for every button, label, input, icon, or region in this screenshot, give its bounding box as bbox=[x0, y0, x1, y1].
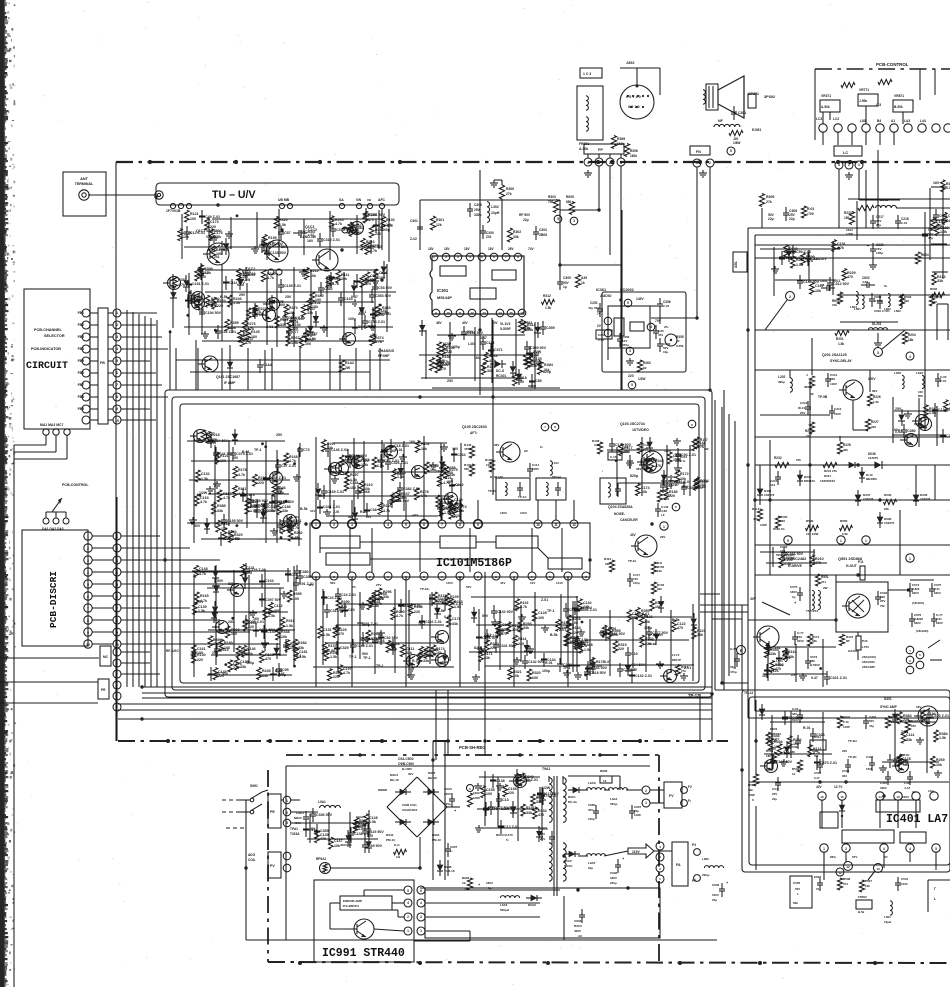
svg-text:C•73: C•73 bbox=[730, 647, 737, 651]
svg-text:15: 15 bbox=[509, 311, 513, 315]
svg-text:P.S-WIDTH: P.S-WIDTH bbox=[343, 904, 360, 908]
coil DL201 bbox=[868, 322, 887, 347]
svg-text:C345 Z-01: C345 Z-01 bbox=[356, 644, 373, 648]
svg-text:64μ: 64μ bbox=[588, 866, 593, 870]
svg-text:C13: C13 bbox=[502, 798, 509, 802]
resistor R504 39k 1/2W S bbox=[748, 774, 759, 802]
svg-text:12k: 12k bbox=[865, 884, 870, 888]
svg-text:L: L bbox=[934, 897, 936, 901]
svg-text:5: 5 bbox=[557, 217, 559, 221]
svg-text:C572: C572 bbox=[790, 585, 798, 589]
label 33V arrow bbox=[750, 597, 790, 615]
audio section outline bbox=[602, 292, 686, 372]
svg-text:1.5k: 1.5k bbox=[268, 509, 275, 513]
wire power-supply dash outline right bbox=[658, 755, 660, 962]
svg-text:R173: R173 bbox=[242, 270, 251, 274]
svg-text:C163: C163 bbox=[265, 579, 274, 583]
svg-text:FA: FA bbox=[676, 863, 681, 867]
svg-text:100: 100 bbox=[538, 616, 544, 620]
capacitor C373 35u 470L bbox=[730, 647, 740, 674]
svg-text:L602: L602 bbox=[894, 309, 901, 313]
label Q591 2SD868 bbox=[838, 554, 914, 568]
svg-text:PM-1C: PM-1C bbox=[432, 838, 442, 842]
svg-text:R320: R320 bbox=[279, 218, 288, 222]
svg-text:2: 2 bbox=[407, 915, 409, 919]
capacitor C360 50V 10u bbox=[657, 338, 671, 354]
svg-text:Z-01: Z-01 bbox=[359, 310, 366, 314]
svg-text:220μ: 220μ bbox=[610, 881, 617, 885]
svg-text:L623: L623 bbox=[916, 371, 923, 375]
svg-text:630V: 630V bbox=[934, 591, 941, 595]
svg-text:100: 100 bbox=[395, 499, 401, 503]
svg-text:C23 Z-01: C23 Z-01 bbox=[327, 596, 342, 600]
IC991 pins right bbox=[417, 886, 425, 935]
svg-text:1•: 1• bbox=[450, 849, 453, 853]
svg-text:ANT: ANT bbox=[80, 177, 88, 181]
svg-text:10k: 10k bbox=[421, 447, 427, 451]
svg-text:C53 50V: C53 50V bbox=[378, 286, 393, 290]
svg-text:47k: 47k bbox=[753, 517, 758, 521]
svg-text:220: 220 bbox=[669, 494, 675, 498]
svg-text:C326 Z-01: C326 Z-01 bbox=[391, 461, 408, 465]
svg-text:12: 12 bbox=[676, 339, 680, 343]
svg-text:10k: 10k bbox=[247, 652, 253, 656]
label TP-16 TP-1F bbox=[436, 469, 528, 499]
svg-text:L83: L83 bbox=[860, 119, 866, 123]
svg-text:10μ: 10μ bbox=[663, 350, 668, 354]
label 220b bbox=[842, 749, 847, 753]
svg-text:C77: C77 bbox=[292, 330, 299, 334]
svg-text:ERROR-AMP: ERROR-AMP bbox=[343, 899, 362, 903]
diode D105 bbox=[661, 470, 680, 487]
labels IC401 volts bbox=[830, 855, 888, 859]
svg-text:35μ: 35μ bbox=[730, 665, 735, 669]
svg-text:C24 Z-01: C24 Z-01 bbox=[341, 593, 356, 597]
label HF TP-9B bbox=[810, 392, 828, 399]
svg-text:R4LF: R4LF bbox=[752, 507, 760, 511]
PV pins bbox=[283, 852, 291, 872]
svg-text:R232: R232 bbox=[294, 531, 303, 535]
diode D? arrow bbox=[844, 462, 860, 469]
capacitor C577 150 bbox=[792, 631, 804, 645]
label TPA1 T315A bbox=[290, 827, 300, 836]
wire power-supply dash outline top bbox=[286, 754, 660, 756]
wire ladder horizontals bbox=[121, 313, 165, 608]
error amp box bbox=[340, 896, 392, 910]
svg-text:53V: 53V bbox=[452, 515, 457, 519]
svg-text:FB8: FB8 bbox=[78, 395, 85, 399]
svg-text:COIL: COIL bbox=[248, 858, 256, 862]
right column tall rect bbox=[937, 304, 948, 340]
svg-text:9: 9 bbox=[116, 407, 118, 411]
capacitor C603 J-7 bbox=[869, 293, 883, 307]
svg-text:18V: 18V bbox=[916, 705, 921, 709]
svg-text:R121: R121 bbox=[190, 212, 199, 216]
svg-text:220: 220 bbox=[911, 724, 916, 728]
svg-text:C353 50V: C353 50V bbox=[375, 294, 392, 298]
svg-text:PR: PR bbox=[101, 688, 106, 692]
svg-text:Q103 2SC2734: Q103 2SC2734 bbox=[620, 422, 645, 426]
svg-text:12k: 12k bbox=[436, 223, 442, 227]
svg-text:PCB-INDICATOR: PCB-INDICATOR bbox=[31, 347, 61, 351]
svg-text:0.47: 0.47 bbox=[811, 676, 818, 680]
coil L602b bbox=[894, 295, 902, 313]
svg-text:TP-1F: TP-1F bbox=[488, 489, 497, 493]
svg-text:33k: 33k bbox=[383, 595, 389, 599]
svg-text:220: 220 bbox=[258, 481, 264, 485]
svg-text:RU-3a: RU-3a bbox=[568, 800, 577, 804]
svg-text:C314 50V: C314 50V bbox=[330, 609, 347, 613]
label ADG COIL bbox=[248, 853, 256, 862]
svg-text:•41V: •41V bbox=[412, 513, 418, 517]
svg-text:C402: C402 bbox=[866, 755, 874, 759]
svg-text:4: 4 bbox=[650, 325, 652, 329]
IC101 bottom pins bbox=[312, 572, 590, 580]
resistor R1M4 31k bbox=[537, 362, 553, 375]
svg-text:B-5k: B-5k bbox=[858, 910, 865, 914]
svg-text:R267: R267 bbox=[291, 336, 300, 340]
FP connector box bbox=[584, 144, 624, 154]
svg-text:100: 100 bbox=[231, 632, 237, 636]
svg-text:0.7k: 0.7k bbox=[843, 720, 849, 724]
wire IC401 block inner outline bbox=[749, 697, 950, 865]
wires ic401 buses bbox=[742, 782, 949, 880]
svg-text:R388: R388 bbox=[447, 466, 456, 470]
svg-text:12: 12 bbox=[572, 523, 576, 527]
svg-text:1.5k: 1.5k bbox=[939, 736, 946, 740]
svg-text:R346: R346 bbox=[771, 734, 780, 738]
svg-text:33k: 33k bbox=[513, 235, 519, 239]
svg-text:10k: 10k bbox=[442, 348, 448, 352]
svg-text:TU – U/V: TU – U/V bbox=[212, 189, 256, 201]
svg-text:C38: C38 bbox=[370, 508, 377, 512]
capacitor C363 bbox=[617, 333, 630, 347]
svg-text:220: 220 bbox=[842, 749, 847, 753]
svg-text:E507: E507 bbox=[814, 875, 821, 879]
coil L002 bbox=[848, 198, 950, 240]
svg-text:+: + bbox=[726, 881, 728, 885]
svg-text:FB1: FB1 bbox=[78, 311, 85, 315]
svg-text:R303: R303 bbox=[548, 195, 556, 199]
svg-text:33k: 33k bbox=[523, 626, 529, 630]
svg-text:100: 100 bbox=[224, 646, 230, 650]
wires lower right block bbox=[748, 620, 836, 680]
resistor R363 82 bbox=[637, 360, 650, 372]
svg-text:4.7k: 4.7k bbox=[200, 500, 207, 504]
capacitor C303 bbox=[533, 226, 547, 240]
svg-text:27V: 27V bbox=[376, 583, 381, 587]
wires IC301 area bbox=[420, 200, 560, 388]
svg-text:C92 Z-01: C92 Z-01 bbox=[788, 716, 803, 720]
diode D096 1S2075 bbox=[877, 512, 895, 528]
svg-text:220: 220 bbox=[771, 739, 777, 743]
svg-text:1.5k: 1.5k bbox=[377, 464, 384, 468]
resistor R403 220 bbox=[905, 719, 918, 732]
svg-text:1500: 1500 bbox=[834, 412, 841, 416]
svg-text:470: 470 bbox=[368, 218, 374, 222]
svg-text:R233: R233 bbox=[844, 211, 852, 215]
svg-text:4: 4 bbox=[909, 847, 911, 851]
svg-text:10k: 10k bbox=[281, 635, 287, 639]
wire IF block outline mid bbox=[172, 397, 705, 690]
svg-text:R509 10•: R509 10• bbox=[773, 527, 785, 531]
svg-text:1.5k: 1.5k bbox=[330, 655, 337, 659]
svg-text:220: 220 bbox=[518, 642, 524, 646]
tuner lower parts bbox=[198, 356, 354, 385]
wires sync area bbox=[760, 330, 950, 441]
resistor NF network bbox=[714, 119, 761, 155]
svg-text:400V: 400V bbox=[356, 825, 363, 829]
svg-text:33k: 33k bbox=[262, 674, 268, 678]
svg-text:FB2: FB2 bbox=[78, 323, 85, 327]
wires DISCRI pins to board bbox=[92, 536, 280, 644]
svg-text:C321 Z-01: C321 Z-01 bbox=[830, 676, 847, 680]
wire c602 row bbox=[840, 294, 950, 296]
capacitor C-15 16V bbox=[608, 452, 622, 460]
svg-text:118V: 118V bbox=[830, 382, 837, 386]
svg-text:C360 Z-01: C360 Z-01 bbox=[404, 604, 421, 608]
svg-text:C32 Z-01: C32 Z-01 bbox=[221, 330, 236, 334]
svg-text:12: 12 bbox=[470, 311, 474, 315]
box 1C3 header bbox=[580, 68, 602, 78]
svg-text:L1Y4: L1Y4 bbox=[672, 653, 680, 657]
svg-text:82: 82 bbox=[643, 366, 647, 370]
svg-text:C146 Z-01: C146 Z-01 bbox=[331, 448, 348, 452]
svg-text:50V: 50V bbox=[466, 585, 471, 589]
resistor R157 120 2W bbox=[694, 437, 708, 451]
fuse P11 bbox=[858, 560, 865, 580]
diode D9A8 bbox=[526, 895, 542, 907]
resistor R604 bbox=[915, 252, 928, 264]
resistor R312 bbox=[542, 294, 555, 310]
svg-text:D0C2: D0C2 bbox=[564, 859, 572, 863]
wire top right corner drop bbox=[920, 69, 935, 100]
svg-text:5: 5 bbox=[787, 539, 789, 543]
svg-text:C902: C902 bbox=[610, 871, 618, 875]
node tuner RF input bbox=[155, 191, 163, 199]
svg-text:C12 Z-01: C12 Z-01 bbox=[504, 825, 519, 829]
svg-text:F2: F2 bbox=[688, 785, 692, 789]
svg-text:L9A5: L9A5 bbox=[588, 861, 596, 865]
svg-text:6: 6 bbox=[554, 425, 556, 429]
svg-text:4.7k: 4.7k bbox=[345, 461, 352, 465]
svg-text:820p: 820p bbox=[474, 646, 482, 650]
resistor R301b bbox=[801, 206, 814, 218]
svg-text:1.5k: 1.5k bbox=[268, 614, 275, 618]
svg-text:C380: C380 bbox=[907, 429, 916, 433]
label IC401 LA7 bbox=[886, 813, 948, 826]
svg-text:C155: C155 bbox=[267, 630, 276, 634]
svg-text:R351: R351 bbox=[608, 627, 617, 631]
cluster right block top band bbox=[0, 0, 1, 1]
svg-text:630V: 630V bbox=[912, 591, 919, 595]
svg-text:R212: R212 bbox=[310, 269, 319, 273]
svg-text:C251: C251 bbox=[590, 301, 598, 305]
fusible R906 12 bbox=[600, 769, 612, 783]
svg-text:TP-1k: TP-1k bbox=[628, 559, 637, 563]
LC pins 321 bbox=[835, 161, 863, 169]
resistor control R bbox=[841, 79, 892, 87]
svg-text:220: 220 bbox=[628, 374, 634, 378]
svg-text:W-01: W-01 bbox=[798, 406, 805, 410]
svg-text:27•: 27• bbox=[352, 585, 356, 589]
svg-text:33k: 33k bbox=[282, 509, 288, 513]
resistor R401 150k bbox=[885, 715, 898, 728]
svg-text:100μ: 100μ bbox=[452, 345, 460, 349]
svg-text:190k: 190k bbox=[473, 791, 480, 795]
svg-text:16V: 16V bbox=[933, 181, 940, 185]
svg-text:100: 100 bbox=[206, 436, 212, 440]
svg-text:IC301: IC301 bbox=[437, 288, 449, 293]
svg-text:330: 330 bbox=[830, 377, 835, 381]
svg-text:1: 1 bbox=[407, 929, 409, 933]
svg-text:C73: C73 bbox=[303, 448, 310, 452]
svg-text:5L: 5L bbox=[884, 284, 888, 288]
svg-text:100μ: 100μ bbox=[786, 556, 794, 560]
svg-text:CF131: CF131 bbox=[648, 633, 658, 637]
svg-text:C-5: C-5 bbox=[876, 103, 881, 107]
transistor IC991 internal bbox=[350, 919, 374, 939]
wires MC PR bbox=[117, 652, 160, 741]
label Q103 2SC2734 video bbox=[620, 420, 696, 432]
svg-text:1S2075: 1S2075 bbox=[884, 521, 895, 525]
resistor R300 27k bbox=[490, 180, 514, 199]
svg-text:FB9: FB9 bbox=[78, 407, 85, 411]
svg-text:C127: C127 bbox=[276, 672, 285, 676]
label 50V 22u pair bbox=[768, 213, 775, 221]
svg-text:1F7V01B: 1F7V01B bbox=[166, 209, 181, 213]
svg-text:1: 1 bbox=[420, 929, 422, 933]
svg-text:390: 390 bbox=[904, 299, 909, 303]
svg-text:DL201: DL201 bbox=[872, 322, 882, 326]
svg-text:25V: 25V bbox=[770, 747, 777, 751]
capacitor C251 47u 50V bbox=[588, 301, 603, 317]
svg-text:100: 100 bbox=[242, 275, 248, 279]
capacitor C501 1000 bbox=[895, 877, 909, 891]
svg-text:R906: R906 bbox=[600, 769, 608, 773]
wire horizontal bus 4 bbox=[118, 703, 712, 705]
svg-text:C181: C181 bbox=[299, 650, 308, 654]
svg-text:2SC1685: 2SC1685 bbox=[862, 665, 875, 669]
coil L101 820uH bbox=[550, 461, 561, 479]
more bus dots bbox=[148, 160, 877, 965]
node circled 1a bbox=[837, 536, 845, 544]
svg-text:27k: 27k bbox=[681, 669, 686, 673]
svg-text:180V: 180V bbox=[610, 876, 617, 880]
label TU - U/V bbox=[212, 189, 256, 201]
resistor R309 27k right bbox=[759, 194, 774, 229]
svg-text:C165: C165 bbox=[194, 295, 203, 299]
svg-text:1600: 1600 bbox=[866, 767, 873, 771]
svg-text:25V: 25V bbox=[285, 295, 292, 299]
label IC101M5186P bbox=[436, 557, 512, 570]
IC361 pin 5 bbox=[624, 299, 632, 307]
coil L9A5 64u bbox=[586, 854, 605, 870]
svg-text:220: 220 bbox=[248, 625, 254, 629]
svg-text:R284: R284 bbox=[298, 641, 307, 645]
svg-text:PE: PE bbox=[270, 810, 275, 814]
label L1Y4 820YP bbox=[672, 653, 681, 662]
svg-text:R227: R227 bbox=[871, 420, 879, 424]
label D401 SYNC AMP bbox=[880, 697, 921, 709]
svg-text:C91 Z-01: C91 Z-01 bbox=[299, 582, 314, 586]
svg-text:160k: 160k bbox=[630, 154, 637, 158]
svg-text:033: 033 bbox=[842, 774, 847, 778]
svg-text:1/2W: 1/2W bbox=[638, 377, 645, 381]
svg-text:SYNC AMP: SYNC AMP bbox=[880, 705, 898, 709]
svg-text:42V: 42V bbox=[816, 785, 823, 789]
label 160V 1u bbox=[478, 881, 493, 890]
wire IF block outline inner bbox=[180, 404, 699, 683]
svg-text:GF: GF bbox=[524, 449, 528, 453]
svg-text:43V: 43V bbox=[630, 533, 637, 537]
svg-text:R-01: R-01 bbox=[395, 448, 403, 452]
svg-text:114V: 114V bbox=[556, 581, 563, 585]
svg-text:25V: 25V bbox=[657, 633, 664, 637]
ground audio bbox=[626, 358, 634, 365]
svg-text:R502: R502 bbox=[792, 767, 800, 771]
diode D401 1S2076 bbox=[757, 484, 775, 500]
svg-text:C382 Z-01: C382 Z-01 bbox=[403, 487, 420, 491]
resistor R232 27k bbox=[774, 456, 801, 468]
svg-text:D9C3: D9C3 bbox=[390, 773, 398, 777]
svg-text:50V: 50V bbox=[682, 485, 689, 489]
svg-text:7V: 7V bbox=[597, 312, 602, 316]
svg-text:25V: 25V bbox=[228, 620, 235, 624]
label 1811H0 bbox=[912, 601, 924, 605]
svg-text:C323: C323 bbox=[816, 733, 825, 737]
svg-text:K-2•: K-2• bbox=[394, 843, 400, 847]
svg-text:10k: 10k bbox=[793, 742, 799, 746]
svg-text:400V AC: 400V AC bbox=[340, 843, 353, 847]
video out right bbox=[607, 437, 709, 500]
potentiometer VR871 bbox=[893, 94, 913, 112]
svg-text:25V: 25V bbox=[772, 792, 777, 796]
svg-text:Z-01: Z-01 bbox=[833, 279, 840, 283]
svg-text:470: 470 bbox=[789, 251, 795, 255]
svg-text:D211: D211 bbox=[824, 474, 831, 478]
svg-text:R350: R350 bbox=[641, 609, 650, 613]
svg-text:14: 14 bbox=[498, 311, 502, 315]
wire pcb-control left border bbox=[814, 69, 816, 140]
resistor R4LF 47k bbox=[752, 507, 767, 527]
svg-text:C329: C329 bbox=[340, 646, 349, 650]
svg-text:R343: R343 bbox=[382, 306, 391, 310]
svg-text:1.5k: 1.5k bbox=[372, 604, 379, 608]
svg-text:R398: R398 bbox=[630, 149, 638, 153]
resistor R228 33k bbox=[837, 442, 850, 454]
svg-text:UB MB: UB MB bbox=[278, 198, 290, 202]
resistor R551 471 bbox=[815, 574, 828, 590]
wire right edge long vertical bbox=[924, 212, 926, 430]
svg-text:C398 Z-01: C398 Z-01 bbox=[368, 320, 385, 324]
IC361 inner rects bbox=[614, 318, 644, 336]
svg-text:C380: C380 bbox=[300, 570, 309, 574]
svg-text:1: 1 bbox=[659, 877, 661, 881]
svg-text:12: 12 bbox=[846, 865, 850, 869]
svg-text:R389: R389 bbox=[217, 504, 226, 508]
svg-text:0.47: 0.47 bbox=[895, 430, 902, 434]
label PCB-SH-REG bbox=[459, 745, 486, 750]
svg-text:NOISE-: NOISE- bbox=[614, 512, 625, 516]
svg-text:R363: R363 bbox=[643, 361, 651, 365]
svg-text:LC2: LC2 bbox=[833, 117, 839, 121]
svg-text:B-5k: B-5k bbox=[362, 637, 370, 641]
transformer T9A1 bbox=[542, 767, 566, 896]
resistor R113 22k bbox=[604, 557, 615, 572]
capacitor C9C8 470 2kV bbox=[540, 827, 555, 845]
svg-text:16V: 16V bbox=[307, 239, 314, 243]
